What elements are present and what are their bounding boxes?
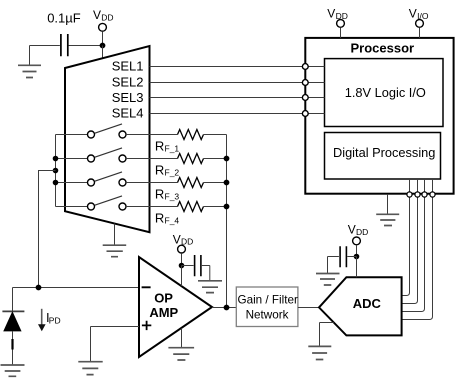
resistor RF_1 bbox=[178, 130, 204, 140]
wire SW4 to R4 bbox=[126, 206, 178, 208]
pin circle SEL1 bbox=[302, 64, 308, 70]
ADC U3 body bbox=[319, 277, 402, 335]
junction dot bus row3 bbox=[53, 180, 59, 186]
op-amp U2 body bbox=[139, 257, 212, 357]
wire node to mux top edge bbox=[102, 46, 104, 59]
svg-text:V: V bbox=[93, 8, 101, 22]
wire SW1 to R1 bbox=[126, 134, 178, 136]
photodiode D1 bottom lead bbox=[12, 331, 14, 365]
left bus wire (switch commons) bbox=[55, 135, 57, 207]
junction dot output/feedback bbox=[224, 305, 230, 311]
block Gain / Filter Network bbox=[236, 287, 298, 327]
photodiode D1 top lead bbox=[12, 288, 14, 312]
op-amp minus sign bbox=[142, 286, 151, 288]
capacitor C 0.1uF plates bbox=[61, 34, 68, 56]
svg-text:Gain / Filter: Gain / Filter bbox=[237, 293, 298, 306]
svg-text:SEL1: SEL1 bbox=[112, 59, 144, 74]
junction dot op-amp VDD bbox=[179, 263, 185, 269]
wire VDD terminal to node bbox=[102, 31, 104, 45]
wire row1 common bbox=[56, 134, 88, 136]
svg-text:F_1: F_1 bbox=[165, 143, 180, 153]
digital bus wire 2 bbox=[402, 179, 418, 304]
wire SEL4 to processor bbox=[150, 113, 303, 115]
wire VDD into op-amp bbox=[181, 266, 183, 287]
junction dot bus R3 bbox=[224, 180, 230, 186]
wire bus to inverting input node bbox=[39, 171, 56, 288]
wire SEL1 to processor bbox=[150, 66, 303, 68]
switch SW4 bbox=[88, 203, 95, 210]
svg-text:F_2: F_2 bbox=[165, 167, 180, 177]
svg-text:PD: PD bbox=[49, 316, 61, 326]
ground (ADC) bbox=[320, 323, 334, 347]
switch SW3 bbox=[88, 179, 95, 186]
junction dot bus takeoff bbox=[53, 168, 59, 174]
svg-text:R: R bbox=[155, 186, 164, 201]
svg-text:R: R bbox=[155, 138, 164, 153]
ground (decoupling cap top-left) bbox=[18, 65, 41, 77]
svg-text:SEL4: SEL4 bbox=[112, 106, 144, 121]
supply VDD (mux) terminal circle bbox=[99, 23, 107, 31]
pin circle SEL4 bbox=[302, 111, 308, 117]
wire SEL3 to processor bbox=[150, 97, 303, 99]
capacitor (op-amp decoupling) plates bbox=[195, 255, 201, 276]
svg-text:V: V bbox=[173, 232, 181, 246]
block Digital Processing bbox=[325, 133, 441, 180]
svg-text:R: R bbox=[155, 210, 164, 225]
wire row2 common bbox=[56, 158, 88, 160]
wires SEL circles to logic block bbox=[308, 67, 324, 114]
wire network to ADC bbox=[298, 307, 319, 309]
switch SW1 bbox=[88, 131, 95, 138]
pin circle D3 bbox=[422, 192, 427, 197]
wire VDD into ADC bbox=[356, 257, 358, 278]
wire row3 common bbox=[56, 182, 88, 184]
supply VDD (processor) terminal bbox=[337, 20, 345, 28]
svg-text:0.1µF: 0.1µF bbox=[47, 11, 81, 26]
svg-text:1.8V Logic I/O: 1.8V Logic I/O bbox=[345, 85, 426, 100]
node junction cap/VDD bbox=[100, 43, 106, 49]
current arrow IPD bbox=[41, 309, 43, 325]
supply VDD (op-amp) terminal bbox=[178, 245, 186, 253]
junction dot inverting node bbox=[36, 285, 42, 291]
wire cap to ground bbox=[29, 46, 31, 65]
wire to ground (noninverting) bbox=[90, 327, 92, 362]
supply VDD (ADC) terminal bbox=[353, 237, 361, 245]
svg-text:V: V bbox=[409, 6, 417, 20]
pin circle D4 bbox=[430, 192, 435, 197]
capacitor C 0.1uF leads (wires) bbox=[30, 45, 103, 47]
ground (noninverting input) bbox=[78, 362, 102, 375]
svg-text:F_4: F_4 bbox=[165, 215, 180, 225]
ground (op-amp) bbox=[181, 328, 183, 347]
svg-text:AMP: AMP bbox=[149, 305, 178, 320]
capacitor (ADC decoupling) leads bbox=[328, 257, 357, 274]
wire SW3 to R3 bbox=[126, 182, 178, 184]
junction dot bus R4 bbox=[224, 204, 230, 210]
resistor RF_2 bbox=[178, 154, 204, 164]
resistor RF_3 bbox=[178, 178, 204, 188]
mux U1 trapezoid body bbox=[65, 46, 150, 232]
resistor RF_4 bbox=[178, 202, 204, 212]
wire row4 common bbox=[56, 206, 88, 208]
switch SW2 bbox=[88, 155, 95, 162]
wire op-amp output bbox=[212, 307, 236, 309]
pin circle SEL3 bbox=[302, 95, 308, 101]
block 1.8V Logic I/O bbox=[325, 59, 444, 127]
ground (op-amp decoupling) bbox=[198, 281, 222, 293]
capacitor (op-amp decoupling) leads bbox=[182, 266, 210, 281]
svg-text:SEL3: SEL3 bbox=[112, 90, 144, 105]
capacitor (ADC decoupling) plates bbox=[340, 246, 346, 267]
svg-text:Processor: Processor bbox=[351, 40, 415, 55]
digital bus wire 3 bbox=[402, 179, 425, 312]
svg-text:V: V bbox=[327, 6, 335, 20]
photodiode D1 cathode bar bbox=[2, 310, 24, 312]
ground (processor) bbox=[387, 195, 389, 214]
svg-text:V: V bbox=[348, 222, 356, 236]
digital bus wire 4 bbox=[402, 179, 433, 320]
digital bus wire 1 bbox=[402, 179, 410, 296]
svg-text:R: R bbox=[155, 162, 164, 177]
ground (ADC decoupling) bbox=[316, 274, 340, 286]
svg-text:SEL2: SEL2 bbox=[112, 74, 144, 89]
svg-text:Network: Network bbox=[246, 308, 289, 321]
pin circle D2 bbox=[415, 192, 420, 197]
junction dot bus row2 bbox=[53, 156, 59, 162]
pin circle D1 bbox=[407, 192, 412, 197]
svg-text:F_3: F_3 bbox=[165, 191, 180, 201]
ground (mux) bbox=[114, 224, 116, 245]
svg-text:DD: DD bbox=[101, 12, 113, 22]
op-amp plus sign bbox=[142, 321, 151, 330]
svg-text:ADC: ADC bbox=[353, 296, 382, 311]
wire SW2 to R2 bbox=[126, 158, 178, 160]
pin circle SEL2 bbox=[302, 80, 308, 86]
svg-text:OP: OP bbox=[154, 291, 173, 306]
svg-text:DD: DD bbox=[356, 227, 368, 237]
op-amp noninverting input wire bbox=[91, 326, 140, 328]
ground (photodiode) bbox=[1, 365, 25, 376]
photodiode D1 body bbox=[4, 312, 21, 331]
photodiode D1 wire to inverting node bbox=[13, 287, 140, 289]
junction dot bus R2 bbox=[224, 156, 230, 162]
wire SEL2 to processor bbox=[150, 82, 303, 84]
junction dot ADC VDD bbox=[354, 254, 360, 260]
supply VIO (processor) terminal bbox=[416, 20, 424, 28]
right bus wire (feedback to opamp output) bbox=[226, 135, 228, 308]
processor box bbox=[305, 38, 453, 194]
svg-text:Digital Processing: Digital Processing bbox=[333, 145, 435, 160]
